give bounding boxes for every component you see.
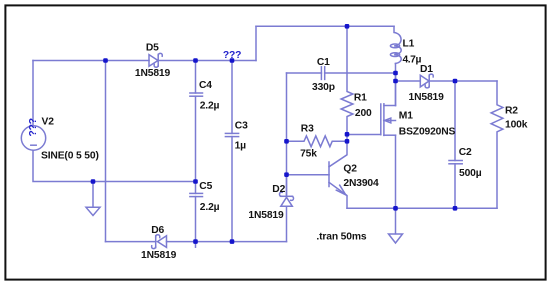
- ground (right): [389, 208, 403, 243]
- svg-text:V2: V2: [42, 117, 55, 128]
- node dot Q2 base tee: [284, 172, 289, 177]
- wire C3 top lead: [231, 61, 233, 134]
- svg-text:1N5819: 1N5819: [248, 210, 284, 221]
- svg-text:SINE(0 5 50): SINE(0 5 50): [41, 151, 99, 162]
- node dot D1 anode: [393, 79, 398, 84]
- svg-text:2.2µ: 2.2µ: [200, 101, 220, 112]
- node dot R3 right: [345, 139, 350, 144]
- svg-text:L1: L1: [403, 38, 415, 49]
- svg-text:1N5819: 1N5819: [135, 68, 171, 79]
- wire D2 top lead: [286, 175, 288, 197]
- wire C2 top lead: [454, 81, 456, 161]
- svg-text:D5: D5: [146, 43, 159, 54]
- node dot gate: [345, 132, 350, 137]
- svg-text:???: ???: [28, 118, 39, 136]
- wire D2 bottom lead to bottom net: [286, 206, 288, 241]
- wire C5 bottom lead: [195, 197, 197, 248]
- wire D1 anode lead: [396, 80, 421, 82]
- capacitor C5: [190, 193, 203, 196]
- wire riser to top rail: [255, 26, 257, 60]
- svg-text:500µ: 500µ: [459, 168, 482, 179]
- transistor Q2: [329, 141, 347, 208]
- node dot R1 top: [345, 24, 350, 29]
- mosfet M1: [381, 104, 396, 136]
- voltage source V2: [21, 126, 45, 150]
- node dot C2 bottom: [453, 206, 458, 211]
- wire C4 top lead: [195, 61, 197, 94]
- svg-text:100k: 100k: [505, 120, 528, 131]
- wire D1 cathode to node: [429, 80, 497, 82]
- svg-text:C5: C5: [199, 181, 212, 192]
- svg-text:???: ???: [223, 50, 241, 61]
- svg-text:1µ: 1µ: [235, 141, 247, 152]
- svg-text:200: 200: [355, 108, 372, 119]
- wire D6 cathode lead: [106, 241, 156, 243]
- svg-text:R3: R3: [301, 124, 314, 135]
- inductor L1: [390, 26, 401, 63]
- svg-text:M1: M1: [399, 111, 413, 122]
- svg-text:C1: C1: [317, 57, 330, 68]
- node dot M1 source / ground: [393, 206, 398, 211]
- svg-text:R1: R1: [354, 92, 367, 103]
- svg-text:330p: 330p: [312, 82, 335, 93]
- resistor R2: [491, 81, 503, 208]
- wire C2 bottom lead: [454, 164, 456, 209]
- wire Q2 base lead: [287, 174, 330, 176]
- wire left tall vertical: [105, 61, 107, 242]
- capacitor C3: [225, 133, 238, 136]
- wire bottom net horizontal: [167, 241, 287, 243]
- wire V2 bottom lead: [33, 150, 196, 181]
- wire top rail: [256, 25, 394, 27]
- resistor R3: [287, 136, 348, 147]
- node dot C1 right: [393, 71, 398, 76]
- svg-text:1N5819: 1N5819: [409, 92, 445, 103]
- svg-text:Q2: Q2: [343, 164, 357, 175]
- wire C3 bottom lead: [231, 137, 233, 242]
- node dot C5 top: [193, 179, 198, 184]
- capacitor C2: [449, 161, 462, 164]
- node dot D5 anode branch: [103, 58, 108, 63]
- node dot R3 left: [284, 139, 289, 144]
- wire L1 to M1 drain: [395, 64, 397, 106]
- node dot C4 top: [193, 58, 198, 63]
- node dot D1 cathode / C2: [453, 79, 458, 84]
- node dot ground left: [91, 179, 96, 184]
- node dot C3 bottom: [230, 239, 235, 244]
- capacitor C1: [321, 67, 324, 80]
- wire top-left horizontal: [33, 60, 149, 62]
- svg-text:2.2µ: 2.2µ: [200, 202, 220, 213]
- wire C1 right: [325, 72, 396, 74]
- wire V2 top lead: [32, 61, 34, 127]
- wire M1 drain lead: [395, 73, 397, 106]
- node dot C3 top (???): [230, 58, 235, 63]
- svg-text:75k: 75k: [300, 149, 317, 160]
- svg-text:C4: C4: [199, 80, 212, 91]
- svg-text:1N5819: 1N5819: [141, 250, 177, 261]
- capacitor C4: [190, 93, 203, 96]
- svg-text:2N3904: 2N3904: [343, 178, 379, 189]
- svg-text:4.7µ: 4.7µ: [403, 55, 422, 66]
- wire C4 to C5: [195, 96, 197, 193]
- wire M1 source lead: [395, 135, 397, 208]
- resistor R1: [341, 26, 353, 141]
- wire gate lead: [347, 134, 381, 136]
- wire C1 left: [287, 72, 322, 74]
- diode D6: [152, 235, 167, 249]
- svg-text:BSZ0920NS: BSZ0920NS: [399, 126, 456, 137]
- svg-text:D6: D6: [151, 225, 164, 236]
- wire left mid vertical: [286, 73, 288, 196]
- diode D2: [279, 192, 293, 206]
- diode D5: [149, 53, 162, 67]
- node dot C5 bottom: [193, 239, 198, 244]
- wire bottom rail: [347, 207, 497, 209]
- svg-text:C3: C3: [235, 121, 248, 132]
- svg-text:D1: D1: [420, 64, 433, 75]
- ground (left): [86, 182, 100, 216]
- wire D5 cathode to node: [158, 60, 256, 62]
- svg-text:.tran 50ms: .tran 50ms: [316, 231, 366, 242]
- svg-text:C2: C2: [459, 147, 472, 158]
- diode D1: [420, 74, 433, 88]
- svg-text:R2: R2: [505, 105, 518, 116]
- svg-text:D2: D2: [272, 184, 285, 195]
